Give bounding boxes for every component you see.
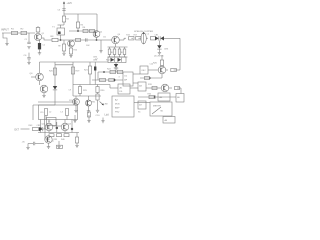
wire (177, 87, 181, 89)
wire (115, 68, 117, 72)
transistor Q7 (40, 85, 48, 93)
wire (64, 13, 97, 15)
wire (115, 44, 117, 47)
junction (71, 128, 73, 130)
transistor Q13 (64, 120, 66, 124)
wire (39, 62, 41, 73)
wire (35, 143, 44, 145)
capacitor C3 (62, 8, 65, 10)
svg-text:Q13: Q13 (68, 124, 72, 126)
resistor R22 (110, 70, 116, 73)
ground (27, 61, 30, 63)
ground (88, 115, 90, 121)
junction (154, 96, 156, 98)
transistor Q10 (88, 96, 90, 100)
wire (2, 32, 35, 34)
IC U1 (123, 72, 133, 86)
svg-text:R16: R16 (126, 34, 129, 36)
svg-text:AMP: AMP (115, 106, 120, 109)
wire (92, 79, 123, 81)
wire (43, 93, 45, 96)
resistor R2 (21, 31, 27, 34)
resistor R3 (37, 32, 39, 33)
block A2 audio module (112, 96, 134, 117)
resistor R27 (171, 68, 177, 71)
block shield box (39, 105, 78, 120)
resistor R26 (161, 55, 163, 60)
wire (96, 37, 98, 40)
resistor R23 (117, 70, 123, 73)
resistor R36 (45, 109, 48, 116)
resistor R14 (119, 47, 121, 49)
svg-text:C9: C9 (69, 90, 71, 92)
wire (41, 38, 52, 40)
resistor R17 (136, 36, 141, 40)
ground (75, 144, 78, 146)
resistor R1 (12, 31, 18, 34)
transistor Q8 (158, 66, 166, 74)
block A6 (163, 117, 175, 124)
capacitor C7 (94, 67, 96, 71)
wire (40, 120, 42, 133)
wire (43, 128, 46, 130)
svg-text:R35: R35 (148, 94, 151, 96)
ground (99, 50, 102, 52)
ground (74, 115, 76, 121)
wire (164, 37, 180, 39)
wire rail (40, 61, 109, 63)
wire (54, 62, 56, 84)
svg-text:Q5 2N706: Q5 2N706 (154, 55, 164, 57)
svg-text:C2: C2 (43, 45, 45, 47)
wire (134, 102, 150, 104)
wire (119, 39, 124, 41)
diode bridge (108, 57, 126, 63)
resistor R29 (79, 85, 81, 87)
wire (75, 105, 77, 110)
wire (98, 71, 123, 73)
junction (114, 79, 116, 81)
diode CR8 (39, 127, 43, 131)
svg-text:INPUT: INPUT (1, 28, 9, 32)
resistor R39 (57, 134, 62, 137)
resistor R19 (71, 67, 74, 74)
wire (56, 122, 58, 133)
wire rail (38, 132, 79, 134)
wire (97, 72, 99, 80)
block oscillator (140, 66, 148, 74)
wire (108, 56, 128, 58)
wire (130, 87, 138, 89)
wire (97, 39, 112, 41)
resistor R37 (66, 109, 69, 116)
transistor Q14 (45, 136, 52, 143)
diode CR1 (155, 36, 159, 40)
wire (66, 116, 68, 120)
ground (47, 146, 50, 148)
power +12V (63, 3, 65, 6)
junction (56, 127, 58, 129)
resistor R21 (89, 62, 91, 66)
resistor R34 (175, 86, 180, 89)
resistor R35 (149, 95, 155, 98)
transistor Q12 (48, 120, 50, 124)
wire (27, 144, 29, 148)
wire (58, 39, 97, 41)
transistor Q9 (75, 96, 77, 98)
wire (161, 74, 163, 78)
junction (149, 77, 151, 79)
wire (71, 120, 73, 133)
wire (63, 6, 65, 15)
transistor Q1 (34, 33, 41, 40)
wire (39, 49, 41, 52)
wire (140, 77, 162, 79)
wire (166, 69, 168, 71)
svg-text:EXT: EXT (15, 129, 20, 131)
resistor R30 (97, 85, 99, 87)
resistor R12 (109, 47, 111, 49)
junction (39, 127, 41, 129)
wire (44, 129, 46, 140)
wire (48, 131, 50, 133)
resistor R43 (33, 127, 39, 130)
wire (148, 69, 158, 71)
wire (53, 125, 61, 127)
resistor R41 (76, 133, 78, 138)
wire (100, 40, 102, 51)
svg-text:4W: 4W (105, 104, 108, 106)
wire (88, 106, 90, 111)
ground (158, 51, 161, 53)
resistor R40 (64, 134, 69, 137)
resistor R16 (129, 36, 134, 40)
wire (44, 116, 46, 129)
wire (39, 40, 41, 43)
svg-text:OSC: OSC (141, 70, 146, 72)
resistor R38 (49, 134, 54, 137)
block A3 (138, 82, 146, 91)
transistor Q11 (161, 84, 169, 92)
wire (109, 85, 111, 89)
resistor R42 (58, 141, 60, 144)
wire (54, 90, 56, 105)
svg-text:MOD: MOD (115, 103, 120, 105)
wire (146, 87, 161, 89)
wire (146, 37, 148, 39)
resistor R44 (52, 140, 53, 142)
transistor Q4 (112, 36, 120, 44)
capacitor C4 (85, 38, 87, 42)
resistor R25 (109, 78, 115, 81)
wire (69, 30, 97, 32)
wire (55, 64, 73, 66)
svg-text:Q12: Q12 (42, 124, 46, 126)
resistor R18 (151, 36, 156, 40)
resistor R10 (70, 47, 72, 48)
resistor R9 (63, 40, 65, 44)
resistor R6 (83, 29, 88, 32)
ground (87, 110, 90, 112)
resistor R7 (90, 29, 95, 32)
resistor R24 (100, 78, 106, 81)
ground (38, 52, 41, 54)
svg-text:R9: R9 (58, 46, 60, 48)
wire arrow to A2 (100, 102, 104, 106)
svg-text:METER: METER (153, 105, 161, 107)
wire (39, 81, 41, 85)
wire (158, 41, 160, 46)
resistor R4 (63, 14, 65, 16)
ground (5, 43, 8, 45)
svg-text:12V: 12V (69, 100, 73, 102)
wire (21, 128, 30, 130)
diode CR5 (111, 58, 115, 62)
resistor R11 (76, 38, 81, 41)
wire (131, 37, 133, 39)
ground (57, 145, 60, 147)
wire (64, 131, 66, 133)
wire (138, 96, 176, 98)
ground (26, 146, 29, 148)
block A4 (158, 93, 170, 101)
svg-text:3: 3 (119, 76, 120, 78)
wire (169, 87, 172, 89)
wire (33, 104, 55, 106)
wire (45, 116, 47, 120)
svg-text:Ldd: Ldd (105, 114, 110, 117)
wire (58, 24, 65, 26)
resistor R32 (88, 112, 91, 117)
wire (72, 62, 74, 96)
svg-text:+12V: +12V (67, 3, 73, 5)
resistor R15 (124, 47, 126, 49)
wire (174, 69, 180, 71)
crystal Y1 (57, 28, 65, 35)
wire rail (73, 95, 101, 97)
ground (102, 118, 104, 121)
capacitor C2 electrolytic (38, 43, 41, 49)
wire (48, 143, 50, 146)
ground (27, 46, 30, 48)
diode CR7 (114, 64, 118, 68)
resistor R5 (77, 14, 79, 22)
wire (133, 82, 138, 84)
block Y2 oven (47, 118, 57, 126)
transistor Q6 (31, 76, 36, 78)
wire (32, 105, 34, 120)
block A5 (176, 94, 184, 103)
svg-text:PSU: PSU (115, 111, 120, 113)
svg-text:C15: C15 (40, 112, 43, 114)
ground (42, 94, 45, 96)
wire (3, 33, 7, 44)
wire (28, 33, 30, 42)
wire (38, 101, 78, 103)
wire (158, 49, 160, 52)
ground (96, 109, 99, 111)
ground (74, 109, 77, 111)
transistor Q3 (68, 40, 75, 47)
junction (103, 71, 105, 73)
transistor Q2 (93, 31, 100, 38)
block A1 filter (118, 84, 130, 94)
wire (133, 73, 140, 75)
resistor R13 (114, 47, 116, 49)
ground (62, 52, 65, 54)
wire rail (73, 84, 110, 86)
resistor R33 (152, 86, 157, 89)
wire (115, 63, 117, 65)
svg-text:CR1: CR1 (155, 34, 159, 36)
diode CR6 (118, 58, 122, 62)
wire (179, 38, 181, 70)
block A7 (138, 101, 146, 109)
svg-text:L1: L1 (147, 34, 149, 36)
svg-text:C14: C14 (150, 63, 153, 65)
resistor R8 (52, 38, 58, 41)
wire (138, 37, 141, 39)
diode CR3 (157, 45, 161, 49)
svg-text:M1: M1 (161, 110, 164, 112)
svg-text:R17: R17 (134, 34, 137, 36)
block meter M1 (150, 102, 172, 116)
inductor L1 slug-tuned (141, 33, 146, 44)
wire (96, 14, 98, 31)
capacitor C8 (97, 93, 99, 95)
ground (69, 55, 72, 57)
svg-text:R10: R10 (74, 50, 77, 52)
diode CR2 (160, 36, 164, 40)
capacitor C1 (27, 41, 30, 43)
resistor R28 (145, 76, 150, 79)
diode CR4 (54, 84, 56, 86)
wire (108, 46, 128, 48)
wire (60, 35, 62, 40)
resistor R20 (53, 68, 56, 75)
svg-text:CR8: CR8 (37, 125, 41, 127)
